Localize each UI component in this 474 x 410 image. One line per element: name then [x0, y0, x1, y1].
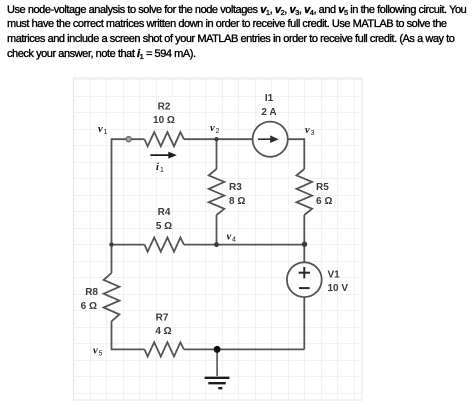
svg-text:2 A: 2 A — [261, 107, 276, 118]
value 6 Ω (R8) — [81, 301, 97, 312]
node v1 terminal — [126, 137, 131, 142]
node label v4 — [227, 232, 237, 244]
svg-text:6 Ω: 6 Ω — [316, 196, 332, 207]
label R2 — [158, 102, 171, 113]
svg-text:I1: I1 — [265, 93, 274, 104]
svg-text:5: 5 — [99, 351, 103, 358]
junction dot v4 — [214, 242, 219, 247]
value 5 Ω — [156, 221, 172, 232]
label I1 — [265, 93, 274, 104]
svg-text:4: 4 — [232, 237, 236, 244]
label R5 — [316, 182, 329, 193]
label V1 — [328, 270, 341, 281]
label R4 — [158, 207, 171, 218]
wire: I1 to top-right corner — [288, 138, 305, 140]
svg-text:R3: R3 — [229, 182, 242, 193]
svg-text:v: v — [227, 232, 232, 243]
svg-text:R4: R4 — [158, 207, 171, 218]
resistor R7 — [145, 342, 184, 356]
wire: R2 to node v2 — [184, 138, 217, 140]
node label v1 — [98, 124, 108, 136]
resistor R3 — [209, 169, 225, 215]
value 6 Ω — [316, 196, 332, 207]
svg-text:8 Ω: 8 Ω — [229, 196, 245, 207]
resistor R5 — [297, 169, 313, 215]
svg-text:v: v — [98, 124, 103, 135]
svg-text:v: v — [305, 125, 310, 136]
wire: mid rail left junction to R4 — [112, 244, 145, 246]
value 2 A — [261, 107, 276, 118]
label i1 — [156, 162, 164, 174]
wire: left column R8 section (mid junction down to R8) — [111, 245, 113, 273]
svg-text:R7: R7 — [156, 313, 169, 324]
svg-text:R5: R5 — [316, 182, 329, 193]
svg-text:V1: V1 — [328, 270, 341, 281]
wire: R5 to mid-right node — [303, 215, 305, 245]
node label v5 — [93, 346, 103, 358]
wire: R8 to bottom-left corner — [112, 321, 145, 349]
value 10 V — [328, 283, 349, 294]
junction dot mid-right — [302, 242, 307, 247]
svg-text:2: 2 — [216, 128, 220, 135]
wire: node v4 to mid-right node — [217, 244, 305, 246]
wire: right column v3 down to R5 — [303, 138, 305, 169]
current source I1 — [253, 122, 288, 157]
svg-text:R2: R2 — [158, 102, 171, 113]
resistor R4 — [145, 238, 184, 252]
wire: left column top (v1 corner down to mid junction) — [111, 138, 113, 244]
svg-text:R8: R8 — [85, 287, 98, 298]
svg-text:v: v — [210, 123, 215, 134]
node label v3 — [305, 125, 315, 137]
junction dot v2 — [214, 137, 218, 141]
ground — [205, 349, 230, 388]
resistor R8 — [104, 273, 120, 321]
value 4 Ω — [155, 326, 171, 337]
svg-text:1: 1 — [160, 167, 164, 174]
svg-text:v: v — [93, 346, 98, 357]
label R3 — [229, 182, 242, 193]
svg-text:i: i — [156, 162, 159, 173]
svg-text:3: 3 — [311, 130, 315, 137]
wire: R7 to ground node — [184, 348, 217, 350]
label R7 — [156, 313, 169, 324]
wire: mid-right node down to V1 — [303, 245, 305, 263]
grid background — [74, 78, 363, 400]
junction dot ground node — [214, 346, 221, 353]
value 8 Ω — [229, 196, 245, 207]
label R8 — [85, 287, 98, 298]
wire: R4 to node v4 — [184, 244, 217, 246]
svg-text:1: 1 — [104, 129, 108, 136]
wire: R3 to node v4 — [216, 215, 218, 245]
svg-text:6 Ω: 6 Ω — [81, 301, 97, 312]
current arrow i1 — [150, 152, 176, 159]
node label v2 — [210, 123, 220, 135]
voltage source V1 — [287, 262, 322, 297]
svg-text:10 Ω: 10 Ω — [153, 115, 175, 126]
wire: ground node to bottom-right corner — [217, 348, 304, 350]
wire: v2 down to R3 — [216, 139, 218, 169]
svg-text:5 Ω: 5 Ω — [156, 221, 172, 232]
value 10 Ω — [153, 115, 175, 126]
svg-text:10 V: 10 V — [328, 283, 349, 294]
wire: V1 to bottom-right corner — [303, 297, 305, 349]
junction dot mid-left — [109, 242, 113, 246]
svg-text:4 Ω: 4 Ω — [155, 326, 171, 337]
wire: node v2 to current source I1 — [217, 138, 253, 140]
wire: top rail from v1 corner to R2 — [112, 138, 145, 140]
resistor R2 — [145, 132, 184, 146]
